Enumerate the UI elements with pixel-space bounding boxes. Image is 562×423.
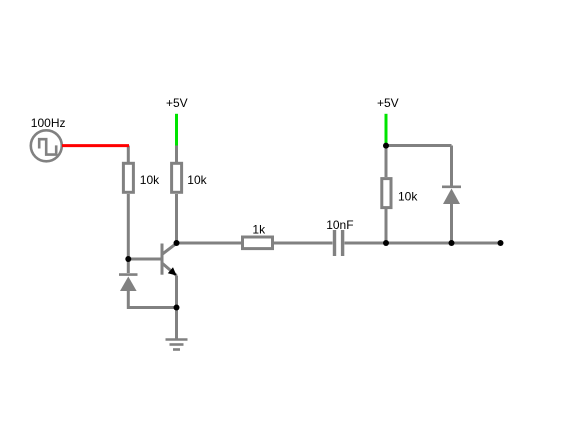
svg-text:+5V: +5V (166, 96, 188, 110)
svg-text:100Hz: 100Hz (31, 116, 66, 130)
svg-text:1k: 1k (252, 223, 266, 237)
svg-text:10k: 10k (398, 190, 418, 204)
svg-text:+5V: +5V (377, 96, 399, 110)
svg-text:10k: 10k (187, 173, 207, 187)
svg-text:10nF: 10nF (326, 218, 353, 232)
svg-text:10k: 10k (140, 173, 160, 187)
